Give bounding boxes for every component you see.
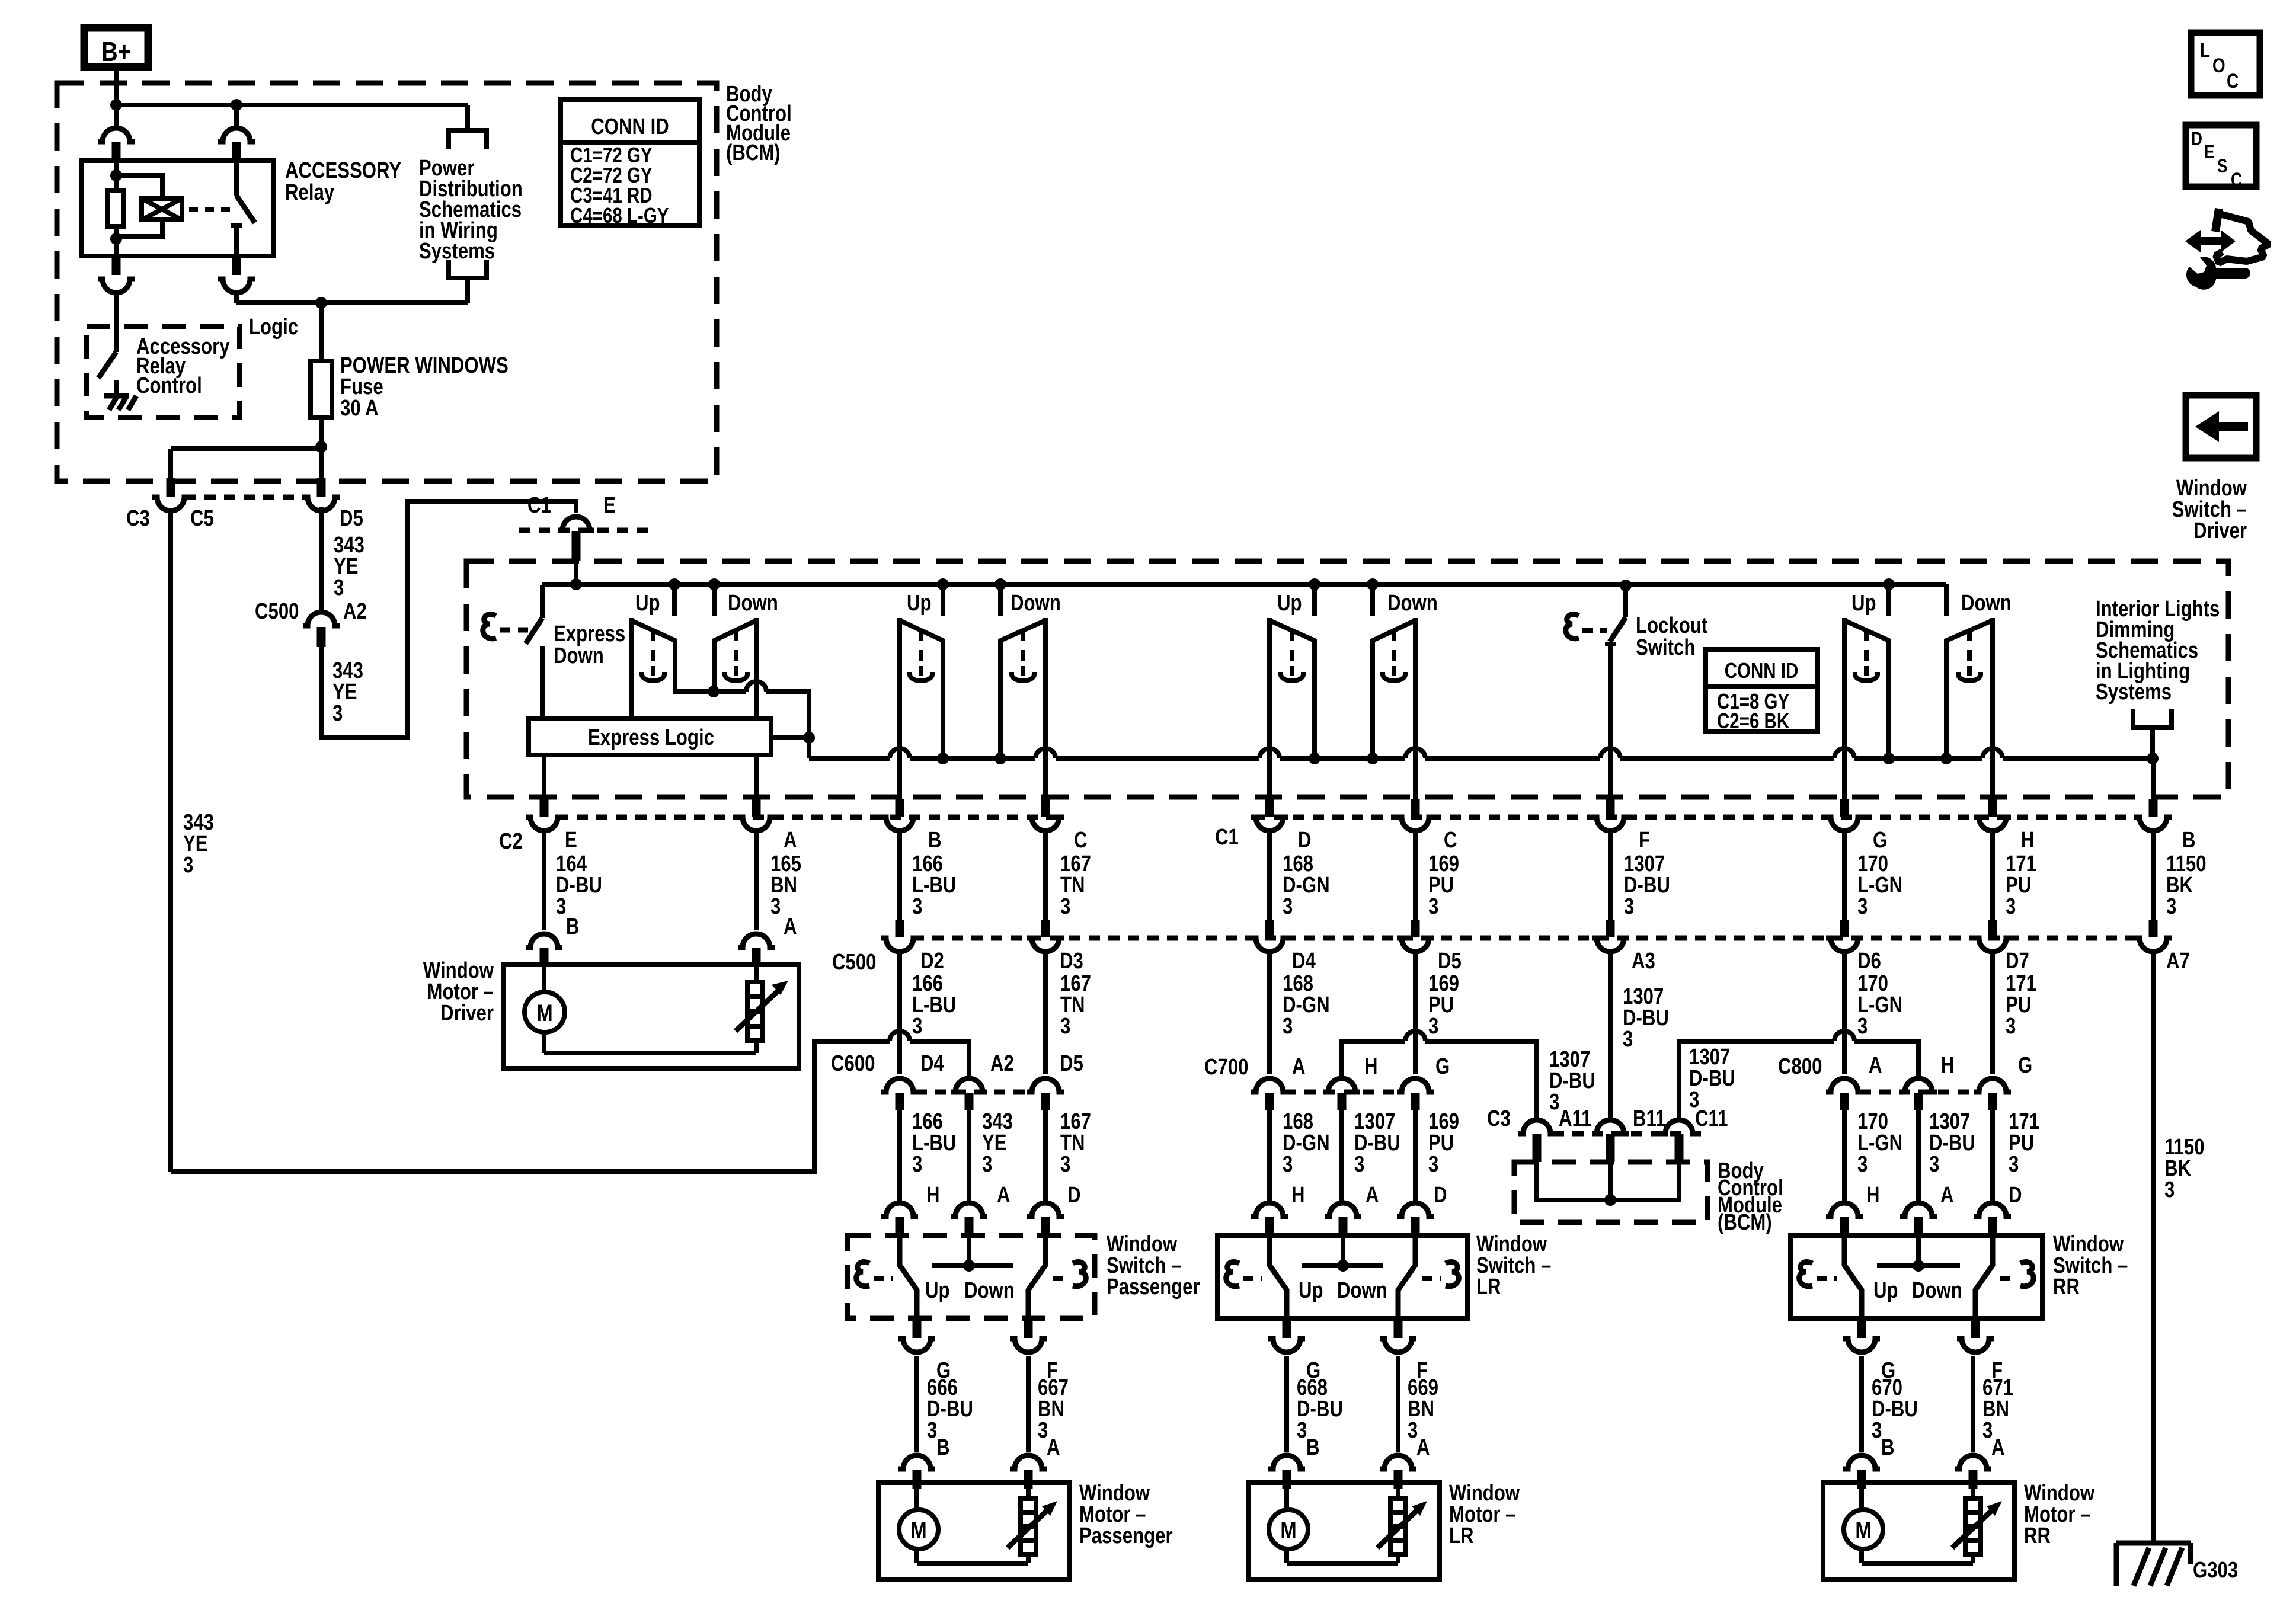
BCM2 dashed box xyxy=(1514,1162,1707,1222)
label window switch RR xyxy=(2053,1232,2128,1299)
svg-text:3: 3 xyxy=(332,701,343,726)
svg-text:Down: Down xyxy=(1912,1278,1962,1303)
svg-text:3: 3 xyxy=(912,1014,922,1039)
svg-text:3: 3 xyxy=(1857,894,1868,919)
svg-text:L: L xyxy=(2200,39,2210,61)
motor M passenger xyxy=(899,1510,938,1549)
svg-text:3: 3 xyxy=(1929,1152,1939,1177)
svg-text:3: 3 xyxy=(183,853,193,878)
connector BCM2 C11 xyxy=(1661,1120,1697,1162)
wire label 1307 below C600s xyxy=(1929,1109,1975,1177)
inline connector C500 A2 xyxy=(303,612,340,647)
wire jumper 1307 left xyxy=(1342,1041,1537,1119)
svg-text:3: 3 xyxy=(1857,1014,1868,1039)
svg-text:CONN ID: CONN ID xyxy=(1725,658,1799,682)
label window motor LR xyxy=(1449,1481,1520,1548)
svg-text:D: D xyxy=(2009,1183,2022,1208)
label accessory relay control xyxy=(136,334,230,398)
svg-text:(BCM): (BCM) xyxy=(726,140,781,165)
label Logic xyxy=(249,315,298,340)
svg-text:C1: C1 xyxy=(527,493,551,518)
wire express logic output xyxy=(771,735,809,740)
svg-text:A2: A2 xyxy=(343,599,367,624)
svg-text:A7: A7 xyxy=(2166,949,2190,974)
relay pin30 exit xyxy=(218,256,255,293)
CONN ID table switch xyxy=(1706,649,1818,733)
wire segment x3633 C2-C500 xyxy=(2151,832,2156,920)
wire 168 to C700 xyxy=(1267,953,1272,1074)
wire segment x1518 C2-C500 xyxy=(897,832,902,920)
wire branch to C5 xyxy=(171,449,321,479)
svg-text:A: A xyxy=(1416,1435,1430,1460)
svg-text:C5: C5 xyxy=(190,506,214,531)
pin label D2 C500 row xyxy=(920,949,944,974)
wire label 1307 D-BU xyxy=(1624,852,1670,919)
label A C700 xyxy=(1292,1054,1306,1079)
switch internal bus xyxy=(542,582,1946,587)
svg-text:Driver: Driver xyxy=(2193,518,2247,543)
label D4 C600 xyxy=(920,1051,944,1076)
window motor LR box xyxy=(1248,1483,1440,1580)
accessory relay control dashed box xyxy=(87,327,239,417)
wire segment x3112 C2-C500 xyxy=(1842,832,1847,920)
svg-text:3: 3 xyxy=(556,894,566,919)
svg-text:3: 3 xyxy=(982,1152,992,1177)
pin labels LR switch xyxy=(1291,1183,1447,1208)
svg-text:D5: D5 xyxy=(1060,1051,1083,1076)
connector BCM2 B11 xyxy=(1592,1120,1629,1162)
window switch passenger xyxy=(848,1203,1095,1352)
pin label D6 C500 row xyxy=(1857,949,1881,974)
chassis ground ARC xyxy=(104,396,136,410)
connector C3 pin D5 exit xyxy=(303,478,340,511)
svg-text:B: B xyxy=(1881,1435,1895,1460)
label A2 C600 xyxy=(990,1051,1014,1076)
label G C800 xyxy=(2018,1053,2032,1078)
label down 3 xyxy=(1387,591,1438,616)
svg-text:A11: A11 xyxy=(1559,1106,1591,1131)
wire relay pin87 down xyxy=(114,290,119,327)
svg-text:M: M xyxy=(536,1000,552,1026)
resistor relay coil shunt xyxy=(107,161,124,256)
dotted line BCM2 row xyxy=(1553,1131,1701,1137)
wire label 343 below C600s xyxy=(982,1109,1013,1177)
label up 1 xyxy=(635,591,660,616)
wire 168 to switch LR xyxy=(1267,1110,1272,1201)
wire switch output junction xyxy=(708,686,746,697)
wire 166 to switch pass xyxy=(897,1110,902,1201)
pin labels G F passenger xyxy=(936,1358,1058,1383)
wire output to lower bus xyxy=(766,692,809,758)
label B11 xyxy=(1633,1106,1665,1131)
label H C700 xyxy=(1364,1054,1378,1079)
wire logic horizontal xyxy=(236,300,468,305)
svg-text:Up: Up xyxy=(1851,591,1876,616)
label 1150 BK 3 lower xyxy=(2164,1135,2205,1202)
svg-text:Up: Up xyxy=(635,591,660,616)
svg-text:3: 3 xyxy=(1624,894,1634,919)
connector cap relay pin85 xyxy=(218,128,255,161)
svg-text:D6: D6 xyxy=(1857,949,1881,974)
svg-text:D5: D5 xyxy=(1438,949,1462,974)
label C600 xyxy=(831,1051,875,1076)
svg-text:C500: C500 xyxy=(832,950,876,975)
pin labels passenger switch xyxy=(926,1183,1081,1208)
svg-text:3: 3 xyxy=(1428,1152,1438,1177)
pin label C C2 row x2436 xyxy=(1444,828,1457,853)
connector BCM2 A11 xyxy=(1518,1120,1555,1162)
relay coil xyxy=(142,199,182,220)
dotted line C2 row xyxy=(557,815,2140,820)
svg-text:G303: G303 xyxy=(2193,1558,2238,1583)
interior lights bracket xyxy=(2133,709,2172,728)
svg-text:D: D xyxy=(1434,1183,1447,1208)
svg-text:Switch: Switch xyxy=(1636,635,1695,660)
window motor RR box xyxy=(1823,1483,2014,1580)
switch lower bus xyxy=(809,756,2152,761)
power node B+ xyxy=(84,28,148,67)
svg-text:Logic: Logic xyxy=(249,315,298,340)
svg-text:Up: Up xyxy=(1873,1278,1898,1303)
svg-text:C800: C800 xyxy=(1778,1054,1822,1079)
motor LR breaker xyxy=(1377,1487,1427,1554)
dotted line C1 entry xyxy=(519,528,652,533)
label A11 xyxy=(1559,1106,1591,1131)
svg-text:M: M xyxy=(1855,1517,1871,1544)
wire segment x1764 C2-C500 xyxy=(1043,832,1048,920)
label ACCESSORY relay xyxy=(285,158,401,205)
svg-text:A: A xyxy=(1991,1435,2005,1460)
svg-text:A: A xyxy=(1292,1054,1306,1079)
label up 3 xyxy=(1277,591,1302,616)
icon back arrow box xyxy=(2186,395,2256,458)
svg-text:C11: C11 xyxy=(1695,1106,1728,1131)
switch accessory relay control xyxy=(98,327,116,378)
pin labels G F LR xyxy=(1306,1358,1428,1383)
svg-text:CONN ID: CONN ID xyxy=(591,114,669,139)
relay coil bypass loop xyxy=(116,175,162,236)
switch LR window up-down xyxy=(1259,578,1425,799)
svg-text:3: 3 xyxy=(1283,894,1293,919)
connector motor driver A xyxy=(738,934,775,967)
CONN ID table top xyxy=(561,100,699,228)
wires to window motor RR xyxy=(1843,1356,1991,1489)
connector motor driver B xyxy=(526,934,562,967)
motor M driver xyxy=(525,992,565,1032)
wires to window motor LR xyxy=(1268,1356,1416,1489)
svg-text:S: S xyxy=(2217,156,2228,177)
svg-text:D3: D3 xyxy=(1060,949,1083,974)
express logic box xyxy=(529,719,771,755)
BCM dashed box xyxy=(57,83,717,481)
label lockout switch xyxy=(1636,613,1708,660)
wire 343 YE from D5 xyxy=(319,507,324,613)
wire label 164 D-BU xyxy=(556,852,602,919)
label C5 xyxy=(190,506,214,531)
label 343 YE 3 first xyxy=(334,533,364,600)
svg-text:B: B xyxy=(2182,828,2196,853)
label G C700 xyxy=(1435,1054,1450,1079)
connector row C500 xyxy=(881,920,2172,952)
svg-text:ACCESSORY: ACCESSORY xyxy=(285,158,401,183)
label window switch LR xyxy=(1476,1232,1551,1299)
svg-text:3: 3 xyxy=(1623,1027,1633,1052)
pin label A3 C500 row xyxy=(1632,949,1655,974)
label down 2 xyxy=(1011,591,1061,616)
wire label below C500 167 xyxy=(1060,971,1091,1039)
svg-text:E: E xyxy=(565,828,577,853)
pin label D4 C500 row xyxy=(1292,949,1316,974)
svg-text:M: M xyxy=(910,1517,926,1544)
svg-text:Express Logic: Express Logic xyxy=(588,725,714,750)
svg-text:RR: RR xyxy=(2024,1523,2051,1548)
pin label B C2 row x3682 xyxy=(2182,828,2196,853)
label up down passenger xyxy=(925,1278,1015,1303)
wire labels 666 667 xyxy=(927,1375,1069,1443)
motor driver breaker xyxy=(736,967,788,1041)
connector cap relay pin86 xyxy=(98,128,135,161)
motor driver internal wires xyxy=(544,967,756,1053)
wire stub relay pin86 xyxy=(114,105,119,126)
label body control module 2 xyxy=(1718,1158,1783,1235)
label 343 YE 3 left wire xyxy=(183,810,214,878)
wire 1307 to switch RR xyxy=(1916,1110,1921,1201)
svg-text:3: 3 xyxy=(334,575,344,600)
wire 1307 to switch LR xyxy=(1339,1110,1344,1201)
icon vehicle wrench xyxy=(2185,209,2269,290)
svg-text:H: H xyxy=(1291,1183,1305,1208)
relay contact switch xyxy=(231,161,255,256)
pin label G C2 row x3160 xyxy=(1873,828,1887,853)
svg-text:Passenger: Passenger xyxy=(1107,1275,1200,1299)
svg-text:B: B xyxy=(1306,1435,1320,1460)
svg-text:B: B xyxy=(936,1435,950,1460)
wire label 171 PU xyxy=(2006,852,2036,919)
svg-text:3: 3 xyxy=(1060,894,1070,919)
wire 170 to switch RR xyxy=(1842,1110,1847,1201)
wire label 168 D-GN xyxy=(1283,852,1330,919)
pin label D7 C500 row xyxy=(2006,949,2029,974)
label C800 xyxy=(1778,1054,1822,1079)
ground G303 xyxy=(2116,1543,2191,1586)
wire label 170 below C600s xyxy=(1857,1109,1902,1177)
dotted line C800 xyxy=(1860,1090,1979,1095)
label D5 C600 xyxy=(1060,1051,1083,1076)
svg-text:A: A xyxy=(784,914,797,939)
svg-text:D: D xyxy=(2191,129,2202,150)
BCM feed bus xyxy=(116,103,468,107)
svg-text:3: 3 xyxy=(1872,1418,1882,1443)
svg-text:3: 3 xyxy=(1857,1152,1868,1177)
wire interior lights to bus xyxy=(2147,728,2159,764)
pin label B C2 row x1566 xyxy=(928,828,942,853)
svg-text:C3: C3 xyxy=(126,506,150,531)
svg-text:B: B xyxy=(566,914,580,939)
wire pin E from express logic xyxy=(542,755,546,799)
svg-text:Systems: Systems xyxy=(419,239,495,264)
label window switch passenger xyxy=(1107,1232,1200,1299)
wire long 343 YE left xyxy=(168,508,173,1172)
wire label 166 below C600s xyxy=(912,1109,956,1177)
label C3 BCM2 xyxy=(1487,1106,1511,1131)
svg-text:E: E xyxy=(2204,142,2215,163)
wire relay pin30 logic xyxy=(234,290,239,303)
wire label below C500 166 xyxy=(912,971,956,1039)
label up 2 xyxy=(907,591,932,616)
wire label below C500 168 xyxy=(1283,971,1330,1039)
wire segment x2388 C2-C500 xyxy=(1413,832,1418,920)
power distribution bracket bottom xyxy=(449,260,487,278)
label down 4 xyxy=(1961,591,2012,616)
connector C3 pin C5 exit xyxy=(152,478,189,511)
pin label H C2 row x3410 xyxy=(2021,828,2035,853)
label C1 at switch entry xyxy=(527,493,551,518)
svg-text:C3: C3 xyxy=(1487,1106,1511,1131)
svg-text:C600: C600 xyxy=(831,1051,875,1076)
svg-text:3: 3 xyxy=(912,894,922,919)
wire label 1307 below C600s xyxy=(1354,1109,1400,1177)
svg-text:3: 3 xyxy=(1354,1152,1364,1177)
svg-text:O: O xyxy=(2212,54,2225,76)
wire power distribution stem top xyxy=(465,105,470,130)
pin labels G F RR xyxy=(1881,1358,2003,1383)
svg-text:Up: Up xyxy=(1299,1278,1323,1303)
BCM2 internal wires xyxy=(1537,1162,1679,1206)
wire labels 668 669 xyxy=(1297,1375,1438,1443)
wire label 171 below C600s xyxy=(2009,1109,2039,1177)
wire pin A from express logic xyxy=(754,755,759,799)
motor RR internals xyxy=(1862,1487,1973,1563)
wire label 169 PU xyxy=(1428,852,1459,919)
svg-text:A: A xyxy=(997,1183,1011,1208)
svg-text:3: 3 xyxy=(1428,1014,1438,1039)
svg-text:D: D xyxy=(1067,1183,1081,1208)
label down 1 xyxy=(728,591,778,616)
wire segment x2142 C2-C500 xyxy=(1267,832,1272,920)
pin labels B A LR xyxy=(1306,1435,1430,1460)
svg-text:Up: Up xyxy=(907,591,932,616)
window switch LR xyxy=(1217,1203,1467,1352)
svg-text:RR: RR xyxy=(2053,1275,2080,1299)
svg-text:B+: B+ xyxy=(101,36,130,66)
svg-text:E: E xyxy=(603,493,616,518)
wire label below C500 170 xyxy=(1857,971,1902,1039)
svg-text:A3: A3 xyxy=(1632,949,1655,974)
node fuse branch xyxy=(315,441,327,453)
wire 166 to C600 xyxy=(897,953,902,1074)
wire bus corner to down4 tap xyxy=(1944,584,1949,616)
svg-text:LR: LR xyxy=(1449,1523,1474,1548)
ground stub ARC xyxy=(114,380,119,396)
window switch RR xyxy=(1790,1203,2042,1352)
label A C800 xyxy=(1869,1053,1882,1078)
svg-text:3: 3 xyxy=(2166,894,2176,919)
wire 343 YE to C600 A2 xyxy=(910,1041,969,1076)
relay K1 ACCESSORY box xyxy=(81,161,273,256)
pin label D3 C500 row xyxy=(1060,949,1083,974)
switch driver window up xyxy=(631,578,714,719)
lockout switch xyxy=(1600,580,1632,799)
svg-text:A: A xyxy=(1047,1435,1060,1460)
hop jumper over 170 LGN xyxy=(1834,1031,1854,1041)
fuse POWER WINDOWS 30A xyxy=(311,303,332,481)
wire label 167 TN xyxy=(1060,852,1091,919)
label 1307 D-BU 3 jumper left xyxy=(1549,1047,1595,1115)
motor M RR xyxy=(1844,1510,1883,1549)
svg-text:3: 3 xyxy=(770,894,781,919)
label window motor passenger xyxy=(1079,1481,1173,1548)
wire C1E to bus xyxy=(574,561,578,584)
motor LR internals xyxy=(1287,1487,1398,1563)
svg-text:3: 3 xyxy=(1060,1152,1070,1177)
svg-text:A: A xyxy=(1366,1183,1379,1208)
label 343 YE 3 second xyxy=(332,658,363,726)
svg-text:D5: D5 xyxy=(340,506,363,531)
power distribution bracket top xyxy=(449,130,487,149)
label interior lights dimming xyxy=(2096,597,2220,705)
connector row C700 xyxy=(1251,1078,1434,1110)
wire label below C500 169 xyxy=(1428,971,1459,1039)
wire 171 to switch RR xyxy=(1990,1110,1995,1201)
label C700 xyxy=(1204,1055,1248,1080)
switch RR window up-down xyxy=(1834,578,2003,799)
label power distribution xyxy=(419,156,523,264)
svg-text:H: H xyxy=(926,1183,940,1208)
hop jumper over 169 PU xyxy=(1405,1031,1425,1041)
wire label 166 L-BU xyxy=(912,852,956,919)
xi lockout xyxy=(1566,614,1607,638)
svg-text:Down: Down xyxy=(964,1278,1015,1303)
svg-text:C4=68 L-GY: C4=68 L-GY xyxy=(570,203,669,227)
svg-text:H: H xyxy=(1866,1183,1880,1208)
icon DESC box xyxy=(2186,125,2256,191)
svg-text:G: G xyxy=(1873,828,1887,853)
dotted line C500 row xyxy=(913,936,2140,941)
label H C800 xyxy=(1941,1053,1955,1078)
svg-text:D2: D2 xyxy=(920,949,944,974)
pin labels B A passenger xyxy=(936,1435,1060,1460)
label E at switch entry xyxy=(603,493,616,518)
express down switch xyxy=(526,585,542,719)
svg-text:Down: Down xyxy=(554,644,604,668)
svg-text:A: A xyxy=(784,828,797,853)
wire label 1307 A3 xyxy=(1623,984,1669,1052)
xi express down xyxy=(483,614,536,638)
svg-text:D4: D4 xyxy=(1292,949,1316,974)
svg-text:B11: B11 xyxy=(1633,1106,1665,1131)
connector row C800 xyxy=(1826,1078,2011,1110)
svg-text:C1: C1 xyxy=(1215,825,1239,850)
svg-text:C: C xyxy=(1444,828,1457,853)
svg-text:C: C xyxy=(2231,170,2242,191)
label up down LR xyxy=(1299,1278,1387,1303)
wire 1307 A3 to B11 xyxy=(1608,953,1613,1119)
svg-text:B: B xyxy=(928,828,942,853)
wire label 1150 BK xyxy=(2166,852,2207,919)
dotted connector line C3 xyxy=(185,495,307,500)
dotted line C600 xyxy=(916,1090,1031,1095)
svg-text:(BCM): (BCM) xyxy=(1718,1210,1772,1235)
pin label E C2 row x953 xyxy=(565,828,577,853)
svg-text:3: 3 xyxy=(1283,1014,1293,1039)
wire label 169 below C600s xyxy=(1428,1109,1459,1177)
svg-text:Up: Up xyxy=(1277,591,1302,616)
wire label 168 below C600s xyxy=(1283,1109,1330,1177)
wire label 170 L-GN xyxy=(1857,852,1902,919)
motor passenger internals xyxy=(917,1487,1028,1563)
svg-text:Down: Down xyxy=(1961,591,2012,616)
svg-text:F: F xyxy=(1639,828,1650,853)
